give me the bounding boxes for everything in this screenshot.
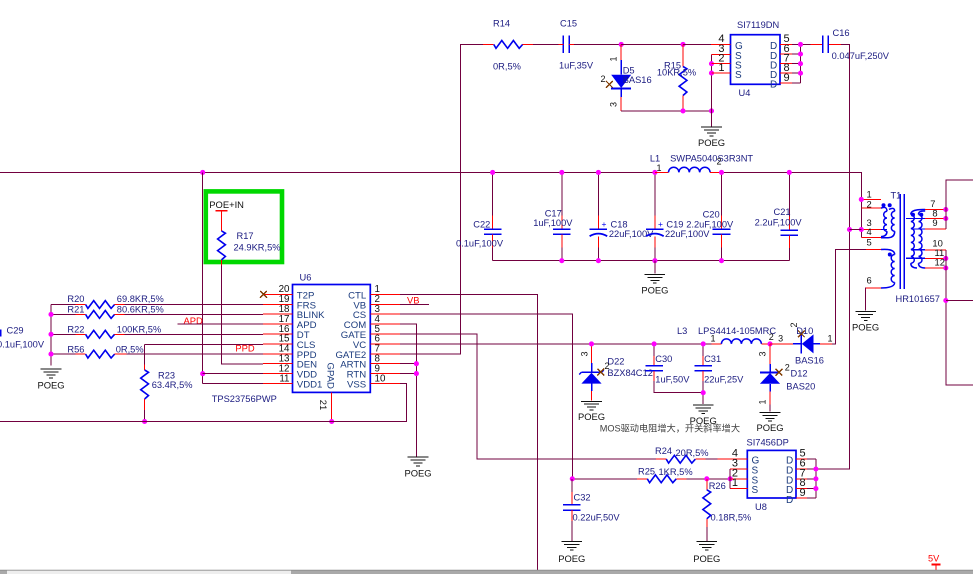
U6 pin 8 number — [375, 354, 381, 365]
C16 value label 0.047uF,250V — [832, 51, 890, 61]
POEG label under U4 — [698, 137, 725, 148]
svg-text:0.18R,5%: 0.18R,5% — [711, 513, 752, 523]
junction R15 bottom — [680, 108, 685, 113]
C29 designator label — [7, 326, 24, 336]
U4 pin 1 number — [718, 62, 724, 74]
svg-text:POEG: POEG — [578, 411, 605, 422]
transformer T1 core lines — [900, 194, 904, 289]
D12 no-connect X — [776, 369, 783, 376]
junction R25/CS/C32 node — [570, 476, 575, 481]
POEG label R26 ground — [693, 553, 720, 564]
C31 designator label — [704, 354, 721, 364]
wire secondary bottom rail down and to right edge — [946, 250, 973, 385]
U6 pin 5 GATE stub — [370, 333, 400, 335]
resistor R23 63.4R — [141, 344, 149, 421]
U6 pin name T2P — [297, 290, 315, 301]
diode D10 BAS16 (horizontal, cathode left) — [770, 334, 832, 353]
D22 no-connect X — [597, 369, 604, 376]
svg-text:3: 3 — [580, 351, 590, 356]
U6 pin name GATE — [341, 330, 366, 341]
capacitor C20 — [713, 172, 731, 260]
T1 pin 12 stub — [925, 267, 946, 269]
junction rail R22 — [48, 332, 53, 337]
junction U4 pin 8 — [798, 71, 803, 76]
junction C22 top — [490, 170, 495, 175]
svg-text:1: 1 — [609, 56, 619, 61]
U6 pin 7 GATE2 stub — [370, 353, 400, 355]
U8 pin 6 number — [800, 458, 806, 470]
D5 pin 2 number — [601, 74, 606, 84]
U4 pin 1 stub — [712, 72, 731, 74]
U4 source pins tie wire — [711, 54, 713, 111]
U4 pin 3 stub and wire — [712, 53, 731, 55]
inductor L1 SWPA5040S3R3NT — [655, 167, 722, 172]
svg-text:C22: C22 — [473, 220, 490, 230]
junction C30 top — [652, 341, 657, 346]
wire secondary top rail to right edge — [946, 180, 973, 229]
U6 pin 1 CTL stub — [370, 293, 400, 295]
T1 pin 1 number — [867, 189, 872, 200]
svg-text:D12: D12 — [791, 368, 808, 378]
POEG label C31 ground — [690, 415, 717, 426]
resistor R26 0.18R — [703, 479, 711, 541]
wire U4 drain to C16 — [829, 43, 841, 45]
T1 secondary winding right (two parallel columns) — [906, 209, 925, 268]
svg-text:C15: C15 — [560, 19, 577, 29]
T1 pin 8 stub — [925, 218, 946, 220]
U8 pin 1 number — [732, 477, 738, 489]
U6 pin name DEN — [297, 360, 317, 371]
U6 pin name RTN — [347, 370, 367, 381]
U8 pin 3 number — [732, 458, 738, 470]
R26 value label 0.18R,5% — [711, 513, 752, 523]
ground POEG under D12 — [760, 413, 781, 422]
U6 pin name COM — [344, 320, 366, 331]
wire VDD1 from vertical to U6 pin 11 — [203, 383, 263, 385]
diode D22 BZX84C12 zener — [579, 344, 604, 401]
svg-text:SI7456DP: SI7456DP — [747, 438, 789, 448]
PPD net label — [235, 343, 255, 354]
junction source node at ground — [709, 108, 714, 113]
svg-text:D: D — [786, 495, 793, 506]
U8 pin 5 number — [800, 448, 806, 460]
wire CTL from U6 pin1 down (long vertical x=537.5) — [400, 294, 537, 570]
POEG label left rail — [37, 379, 64, 390]
C22 value label 0.1uF,100V — [456, 239, 504, 249]
wire VC from U6 pin6 to bias network row y=343 — [400, 343, 711, 345]
svg-text:R26: R26 — [709, 481, 726, 491]
T1 pin 6 stub — [866, 287, 881, 289]
R26 designator label — [709, 481, 726, 491]
T1 lower-left winding — [881, 249, 895, 288]
junction T1 pin 7 — [943, 207, 948, 212]
U4 pin 9 number — [784, 72, 790, 84]
svg-text:4: 4 — [867, 226, 872, 237]
R20 value label 69.8KR,5% — [117, 294, 164, 304]
D10 pin 2 number (rotated) — [789, 322, 799, 327]
svg-text:L3: L3 — [677, 326, 687, 336]
svg-text:C16: C16 — [833, 28, 850, 38]
svg-text:POEG: POEG — [558, 553, 585, 564]
U6 pin 5 number — [375, 324, 381, 335]
T1 pin 9 stub — [925, 228, 946, 230]
APD net label — [184, 315, 204, 326]
U6 pin name VDD1 — [297, 380, 323, 391]
D5 value label BAS16 — [623, 75, 652, 85]
wire COM from U6 pin4 down to ground — [400, 324, 416, 456]
svg-text:C20: C20 — [703, 210, 720, 220]
C18 value label 22uF,100V — [609, 229, 654, 239]
resistor R17 24.9KR — [218, 231, 226, 266]
U4 pin 7 number — [784, 53, 790, 65]
svg-text:10: 10 — [375, 373, 386, 384]
mosfet U4 SI7119DN body — [731, 35, 781, 85]
svg-text:0.047uF,250V: 0.047uF,250V — [832, 51, 890, 61]
C32 designator label — [574, 492, 591, 502]
wire C15 to node at D5 — [574, 43, 621, 45]
U4 pin G name — [735, 41, 743, 52]
junction T1 pin 12 — [943, 265, 948, 270]
junction at VDD pin — [200, 371, 205, 376]
svg-text:24.9KR,5%: 24.9KR,5% — [234, 243, 281, 253]
U8 designator label — [755, 502, 767, 512]
D10 value label BAS16 — [795, 355, 824, 365]
U4 pin 3 number — [718, 43, 724, 55]
resistor R21 80.6KR — [51, 311, 263, 319]
U6 pin 4 COM stub — [370, 323, 400, 325]
capacitor C31 — [694, 344, 712, 404]
junction at R15 top — [680, 42, 685, 47]
resistor R22 100KR — [51, 330, 263, 338]
resistor R25 1KR — [572, 475, 730, 483]
svg-text:C31: C31 — [704, 354, 721, 364]
U6 pin name VC — [353, 340, 366, 351]
wire mid branch to right edge — [946, 300, 973, 302]
junction U4 pin2 — [709, 61, 714, 66]
U6 pin name CS — [353, 310, 366, 321]
capacitor C30 — [645, 344, 703, 393]
svg-text:S: S — [735, 70, 742, 81]
svg-text:0.22uF,50V: 0.22uF,50V — [573, 512, 621, 522]
U6 pin 9 number — [375, 363, 380, 374]
svg-text:1uF,100V: 1uF,100V — [533, 218, 573, 228]
ic U6 TPS23756PWP body — [293, 285, 371, 393]
svg-text:BZX84C12: BZX84C12 — [607, 368, 652, 378]
svg-text:1: 1 — [657, 163, 662, 173]
svg-text:5: 5 — [867, 237, 872, 248]
T1 winding polarity dots upper-left — [882, 203, 892, 207]
R25 value label 1KR,5% — [659, 467, 693, 477]
svg-text:S: S — [752, 485, 759, 496]
junction RTN — [414, 371, 419, 376]
svg-text:BAS16: BAS16 — [795, 355, 824, 365]
junction D22 top at VC row — [589, 341, 594, 346]
U6 pin 21 GPAD stub — [331, 392, 333, 421]
capacitor C32 — [563, 479, 581, 541]
C22 designator label — [473, 220, 490, 230]
svg-text:10KR,5%: 10KR,5% — [657, 67, 696, 77]
U4 part number label SI7119DN — [737, 20, 779, 30]
junction R23 bottom rail — [142, 419, 147, 424]
svg-text:22uF,25V: 22uF,25V — [704, 375, 744, 385]
U6 GPAD pad name (rotated) — [324, 363, 335, 390]
T1 pin 7 stub — [925, 209, 946, 211]
U6 pin 13 DEN stub — [263, 363, 293, 365]
svg-text:2.2uF,100V: 2.2uF,100V — [686, 219, 734, 229]
U6 pin 11 VDD1 stub — [263, 383, 293, 385]
svg-text:VDD1: VDD1 — [297, 380, 323, 391]
T1 winding polarity dot lower-left — [888, 253, 892, 257]
C17 designator label — [545, 209, 562, 219]
C16 designator label — [833, 28, 850, 38]
svg-text:U6: U6 — [300, 273, 312, 283]
svg-text:1uF,35V: 1uF,35V — [559, 61, 594, 71]
junction C19/L1 top — [652, 170, 657, 175]
svg-text:VSS: VSS — [347, 380, 366, 391]
D10 pin 3 number — [778, 334, 783, 344]
capacitor C16 — [823, 36, 829, 54]
wire VB stub from U6 pin 2 — [400, 303, 429, 305]
U6 pin 8 ARTN stub — [370, 363, 400, 365]
junction C31 bottom / C30 return — [701, 390, 706, 395]
D10 pin 1 number — [828, 334, 833, 344]
R17 value label 24.9KR,5% — [234, 243, 281, 253]
T1 pin 5 stub — [866, 249, 881, 251]
T1 pin 2 stub — [861, 207, 881, 209]
POEG label under capacitor bank — [641, 284, 668, 295]
svg-text:POEG: POEG — [641, 284, 668, 295]
T1 pin 12 number — [935, 257, 945, 268]
svg-text:C21: C21 — [774, 207, 791, 217]
capacitor C17 — [553, 172, 571, 260]
U6 pin name GATE2 — [335, 350, 366, 361]
C19 value label 22uF,100V — [665, 229, 710, 239]
wire bottom of D5 to R15 to U4 source node — [621, 110, 711, 112]
POEG label T1 ground — [852, 322, 879, 333]
U6 pin 20 number — [279, 284, 290, 295]
svg-text:R17: R17 — [237, 231, 254, 241]
svg-text:BAS20: BAS20 — [786, 382, 815, 392]
VB net label — [407, 294, 420, 305]
L1 pin 2 number — [717, 157, 722, 167]
svg-text:R24: R24 — [655, 446, 672, 456]
capacitor C19 (polarized) — [646, 172, 664, 260]
C32 value label 0.22uF,50V — [573, 512, 621, 522]
svg-text:VB: VB — [407, 294, 420, 305]
R14 designator label — [493, 19, 510, 29]
ground POEG under T1 pin 6 — [855, 312, 876, 321]
U8 pin D names — [786, 456, 793, 506]
T1 pin 5 number — [867, 237, 872, 248]
U6 pin 9 RTN stub — [370, 373, 400, 375]
svg-text:R56: R56 — [67, 344, 84, 354]
L3 part number label LPS4414-105MRC — [698, 326, 776, 336]
junction C17 bottom — [559, 258, 564, 263]
junction C16 branch at pins3/4 node — [847, 227, 852, 232]
U8 pin 4 stub — [718, 458, 748, 460]
svg-text:20R,5%: 20R,5% — [676, 448, 709, 458]
svg-text:U8: U8 — [755, 502, 767, 512]
junction C17 top — [559, 170, 564, 175]
junction C31 top — [701, 341, 706, 346]
U6 pin 17 number — [279, 314, 290, 325]
svg-text:R14: R14 — [493, 19, 510, 29]
junction U8 pin 6 drain branch — [813, 466, 818, 471]
wire pins3/4 node to C16 branch — [850, 229, 862, 231]
scrollbar at bottom — [0, 570, 973, 574]
svg-text:SWPA5040S3R3NT: SWPA5040S3R3NT — [670, 153, 753, 163]
wire CS from U6 pin3 to C32/R25 node — [400, 314, 572, 479]
U6 pin 10 VSS stub — [370, 383, 400, 385]
U8 pin S names — [752, 466, 759, 497]
svg-text:C30: C30 — [655, 354, 672, 364]
U8 pin 1 stub — [730, 488, 747, 490]
wire from R14 left end down to U6 GATE2 pin (vertical x=460.5) — [400, 44, 483, 354]
capacitor bank bottom rail — [493, 260, 790, 262]
svg-text:1: 1 — [828, 334, 833, 344]
resistor R20 69.8KR — [51, 301, 263, 309]
U8 pin 2 number — [732, 467, 738, 479]
T1 part number label HR101657 — [896, 294, 940, 304]
D5 designator label — [623, 65, 635, 75]
U8 pin 7 number — [800, 467, 806, 479]
U6 pin 16 number — [279, 324, 290, 335]
D12 pin 2 number — [785, 363, 790, 373]
junction C18 top — [596, 170, 601, 175]
U6 pin name VSS — [347, 380, 366, 391]
junction U4 pin1 — [709, 71, 714, 76]
L1 pin 1 number — [657, 163, 662, 173]
junction C20 top — [719, 170, 724, 175]
svg-text:POEG: POEG — [698, 137, 725, 148]
svg-text:BAS16: BAS16 — [623, 75, 652, 85]
svg-text:R20: R20 — [67, 294, 84, 304]
resistor R14 — [483, 41, 533, 49]
wire APD to U6 pin 17 — [178, 323, 263, 325]
U8 pin 8 number — [800, 477, 806, 489]
C30 designator label — [655, 354, 672, 364]
svg-text:U4: U4 — [739, 88, 751, 98]
POEG label D22 ground — [578, 411, 605, 422]
junction ARTN — [414, 361, 419, 366]
wire GATE from U6 pin5 to R24 — [400, 334, 656, 459]
C20 value label 2.2uF,100V — [686, 219, 734, 229]
diode D12 BAS20 (vertical, cathode up) — [760, 344, 780, 412]
D5 pin 3 number — [609, 102, 619, 107]
U8 pin 5 stub — [796, 458, 816, 460]
U6 pin 3 number — [375, 304, 381, 315]
svg-text:1: 1 — [758, 399, 768, 404]
U6 pin 21 number (rotated) — [318, 400, 329, 410]
R20 designator label — [67, 294, 84, 304]
L1 designator label — [650, 153, 660, 163]
U4 pin 2 stub — [712, 63, 731, 65]
svg-text:9: 9 — [784, 72, 790, 84]
U6 pin 12 VDD stub — [263, 373, 293, 375]
U8 pin 9 stub — [796, 497, 816, 499]
svg-text:POEG: POEG — [756, 422, 783, 433]
green highlight box around R17 — [206, 191, 282, 262]
ground POEG for COM/ARTN/RTN — [408, 457, 429, 466]
vertical wire bus down to U6 VDD and VDD1 — [202, 172, 204, 383]
capacitor C18 (polarized) — [590, 172, 608, 260]
svg-text:TPS23756PWP: TPS23756PWP — [212, 394, 277, 404]
U6 pin 16 DT stub — [263, 333, 293, 335]
U4 pin 4 number — [718, 33, 724, 45]
svg-text:3: 3 — [778, 334, 783, 344]
R17 designator label — [237, 231, 254, 241]
U8 pin 6 stub — [796, 468, 816, 470]
D22 pin 2 number — [604, 361, 609, 371]
D12 pin 3 number (rotated) — [758, 351, 768, 356]
L3 designator label — [677, 326, 687, 336]
U8 pin 3 stub — [730, 468, 747, 470]
resistor R24 20R — [656, 455, 706, 463]
svg-text:2: 2 — [601, 74, 606, 84]
T1 pin 1 stub — [861, 198, 881, 200]
svg-text:1uF,50V: 1uF,50V — [655, 375, 690, 385]
svg-text:R21: R21 — [67, 305, 84, 315]
U4 pin 6 stub — [780, 53, 801, 55]
C29 value label 0.1uF,100V — [0, 340, 45, 350]
T1 pin 6 number — [867, 274, 872, 285]
svg-text:22uF,100V: 22uF,100V — [609, 229, 654, 239]
POEG label COM ground — [404, 467, 431, 478]
U4 pin S names — [735, 51, 742, 81]
POE+IN power port bar symbol — [215, 211, 227, 231]
R23 designator label — [158, 371, 175, 381]
junction U4 pin 6 — [798, 51, 803, 56]
svg-text:100KR,5%: 100KR,5% — [117, 324, 161, 334]
svg-text:C32: C32 — [574, 492, 591, 502]
resistor R15 10KR — [679, 44, 687, 111]
U6 pin 12 number — [279, 363, 290, 374]
T1 pin 3 stub — [861, 229, 881, 231]
T1 pin 10 number — [932, 238, 942, 249]
svg-text:1: 1 — [711, 334, 716, 344]
svg-text:2: 2 — [785, 363, 790, 373]
D22 designator label — [607, 357, 624, 367]
U6 no-connect X on pin 20 T2P — [260, 291, 267, 298]
U6 pin name FRS — [297, 300, 316, 311]
wire VDD from vertical to U6 pin 12 — [203, 373, 263, 375]
svg-text:GPAD: GPAD — [324, 363, 335, 390]
svg-text:22uF,100V: 22uF,100V — [665, 229, 710, 239]
U8 part number label SI7456DP — [747, 438, 789, 448]
svg-text:SI7119DN: SI7119DN — [737, 20, 779, 30]
T1 pin 9 number — [932, 217, 937, 228]
U6 pin 7 number — [375, 344, 380, 355]
junction C20 bottom — [719, 258, 724, 263]
U4 pin 2 number — [718, 53, 724, 65]
resistor R56 0R — [51, 350, 263, 358]
junction rail R21 — [48, 312, 53, 317]
D12 value label BAS20 — [786, 382, 815, 392]
T1 pin 11 number — [935, 247, 945, 258]
U6 pin name PPD — [297, 350, 317, 361]
wire R24 to U8 gate pin — [706, 458, 718, 460]
U6 pin 18 BLINK stub — [263, 313, 293, 315]
svg-text:0R,5%: 0R,5% — [493, 62, 521, 72]
T1 pin 2 number — [867, 198, 872, 209]
T1 pin 8 number — [932, 207, 937, 218]
U6 pin 11 number — [279, 373, 289, 384]
L3 pin 2 number — [769, 332, 774, 342]
svg-text:R25: R25 — [638, 467, 655, 477]
wire D5 node to R15 node — [621, 43, 683, 45]
svg-text:POEG: POEG — [37, 379, 64, 390]
U6 pin 20 T2P stub — [263, 293, 293, 295]
